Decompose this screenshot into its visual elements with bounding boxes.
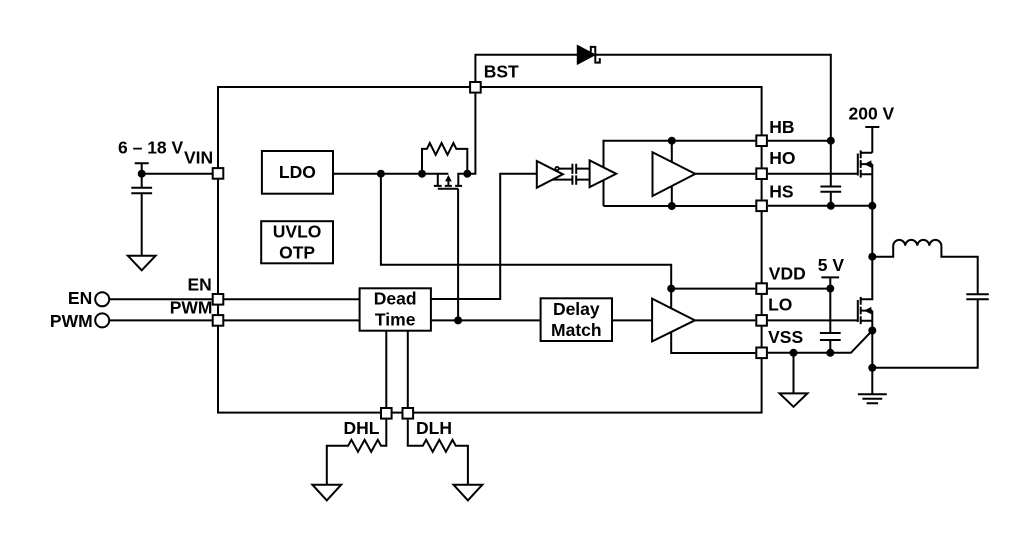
svg-text:BST: BST: [484, 62, 519, 82]
transistor Q1 high-side MOSFET: [858, 150, 873, 177]
pin HS: [756, 201, 767, 212]
level shifter differential lines: [546, 164, 590, 185]
Dead Time block: [360, 288, 431, 330]
ground VIN (open triangle): [128, 256, 156, 271]
node bootstrap switch left: [418, 170, 426, 178]
transistor Q2 body arrow: [864, 307, 872, 314]
wire DLH pin riser: [407, 331, 409, 407]
wire boot cap to HS row: [830, 192, 832, 206]
node 5V VDD tap: [826, 285, 834, 293]
node HS driver bottom rail: [668, 202, 676, 210]
ground DHL (open triangle): [312, 485, 341, 501]
pin VDD: [756, 283, 767, 294]
wire Q2 source to power ground: [871, 321, 873, 395]
inductor L1: [872, 240, 977, 294]
pin VSS: [756, 348, 767, 359]
supply bar 200 V: [865, 127, 879, 153]
svg-text:EN: EN: [68, 288, 92, 308]
IC outline: [218, 87, 762, 413]
svg-text:LDO: LDO: [279, 162, 316, 182]
supply bar 5 V: [821, 277, 839, 333]
node switch node: [868, 253, 876, 261]
svg-text:UVLO: UVLO: [273, 222, 322, 242]
capacitor C-out: [966, 294, 989, 299]
amplifier U3 high-side gate driver: [653, 152, 696, 196]
wire diode cathode to boot rail: [595, 55, 831, 187]
svg-text:PWM: PWM: [50, 311, 93, 331]
svg-text:Dead: Dead: [374, 288, 417, 308]
capacitor level-shift isolation bars: [572, 164, 576, 185]
wire PWM row: [109, 319, 359, 321]
amplifier U4 low-side gate driver: [652, 299, 695, 342]
wire LS driver output to LO pin: [695, 319, 755, 321]
svg-text:6 – 18 V: 6 – 18 V: [118, 138, 184, 158]
svg-text:VDD: VDD: [769, 264, 806, 284]
LDO block: [262, 151, 333, 194]
node boot cap HS: [827, 202, 835, 210]
node boot rail HB: [827, 137, 835, 145]
wire Q-boot gate to LO row: [457, 189, 459, 321]
terminal EN input circle: [95, 292, 109, 306]
pin EN: [213, 294, 224, 305]
wire Q1 source to switch node: [871, 174, 873, 257]
Delay Match block: [541, 298, 612, 341]
wire HS driver supply rails: [604, 141, 756, 206]
buffer U1 (inverting, level shift input): [537, 161, 563, 188]
wire output return: [872, 299, 977, 368]
wire VDD row pin stub: [671, 288, 755, 290]
svg-text:LO: LO: [768, 295, 792, 315]
UVLO OTP block: [261, 221, 333, 263]
svg-text:VIN: VIN: [184, 147, 213, 167]
capacitor C-VDD bypass: [820, 333, 841, 353]
resistor R-boot (parallel with switch): [422, 143, 467, 174]
node bootstrap switch right: [463, 170, 471, 178]
wire DHL pin riser: [385, 331, 387, 407]
transistor Q1 body arrow: [864, 160, 872, 167]
node VIN cap junction: [138, 170, 146, 178]
pin HO: [756, 168, 767, 179]
pin BST: [470, 82, 481, 93]
wire HS driver output to HO pin: [695, 173, 755, 175]
buffer U1 output bubble: [555, 167, 558, 170]
capacitor C-boot: [820, 187, 841, 192]
node VDD branch junction: [377, 170, 385, 178]
node LS driver VDD tap: [667, 285, 675, 293]
wire EN row: [109, 298, 359, 300]
node VDD cap VSS: [826, 349, 834, 357]
resistor R-DLH: [408, 420, 468, 485]
wire HB row: [768, 140, 831, 142]
wire LO row external: [768, 319, 858, 321]
svg-text:OTP: OTP: [279, 243, 315, 263]
node bootstrap gate tap: [454, 316, 462, 324]
svg-text:EN: EN: [187, 275, 211, 295]
wire internal VDD rail: [381, 174, 755, 353]
wire HO row external: [768, 173, 858, 175]
buffer U2 (level shift receiver): [590, 160, 617, 187]
pin DLH: [403, 408, 414, 419]
svg-text:HB: HB: [769, 117, 794, 137]
svg-text:HO: HO: [769, 148, 795, 168]
node HS row FET: [868, 202, 876, 210]
pin VIN: [213, 168, 224, 179]
svg-text:200 V: 200 V: [849, 104, 895, 124]
transistor Q-boot bootstrap switch: [434, 174, 462, 189]
svg-text:5 V: 5 V: [818, 255, 845, 275]
pin LO: [756, 315, 767, 326]
svg-text:Time: Time: [375, 310, 416, 330]
wire HO signal riser from Dead Time: [431, 174, 537, 299]
diode D-boot schottky: [578, 46, 600, 64]
wire VSS row external with kelvin diagonal: [768, 331, 872, 353]
pin DHL: [381, 408, 392, 419]
transistor Q-boot body arrow: [445, 175, 452, 182]
svg-text:VSS: VSS: [768, 327, 803, 347]
transistor Q2 low-side MOSFET: [858, 257, 873, 324]
pin HB: [756, 135, 767, 146]
node LS source kelvin: [868, 327, 876, 335]
wire Delay Match to LS driver: [612, 319, 652, 321]
ground power earth: [858, 394, 887, 403]
node VSS ground tap: [790, 349, 798, 357]
svg-text:PWM: PWM: [170, 298, 213, 318]
svg-text:HS: HS: [769, 181, 793, 201]
terminal PWM input circle: [95, 313, 109, 327]
ground VSS (open triangle): [780, 353, 808, 407]
svg-text:Match: Match: [551, 320, 602, 340]
svg-text:DHL: DHL: [344, 418, 380, 438]
svg-text:Delay: Delay: [553, 299, 600, 319]
resistor R-DHL: [327, 420, 387, 485]
wire VIN input row: [142, 173, 218, 175]
wire LDO output row (VIN node to bootstrap switch): [333, 173, 448, 175]
wire BST pin riser: [458, 94, 475, 185]
node output return tap: [868, 364, 876, 372]
wire HS row external: [768, 205, 872, 207]
ground DLH (open triangle): [454, 485, 483, 501]
svg-text:DLH: DLH: [416, 418, 452, 438]
wire BST top rail to diode: [475, 55, 577, 81]
node HS driver top rail: [668, 137, 676, 145]
wire LO row Dead Time to Delay Match: [431, 319, 541, 321]
capacitor C-VIN bypass with supply bar: [131, 163, 152, 256]
pin PWM: [213, 315, 224, 326]
wire VDD row external: [768, 288, 830, 290]
